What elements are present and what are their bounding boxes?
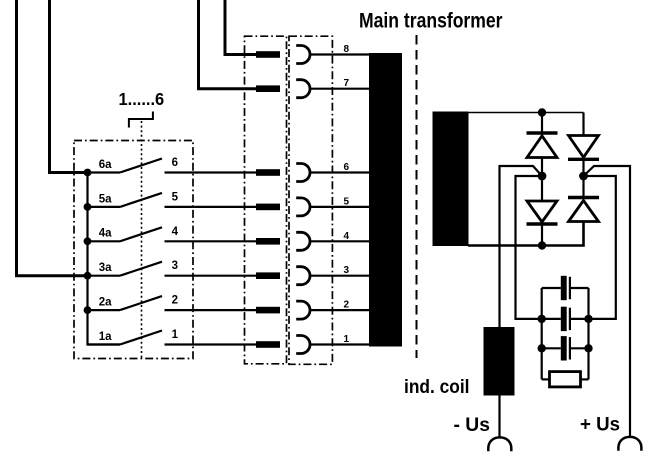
svg-text:6: 6 [343, 162, 349, 173]
svg-text:5: 5 [172, 191, 179, 203]
resistor R1 [542, 372, 589, 387]
wire right mid to + terminal [584, 166, 631, 437]
junction dot top [538, 108, 546, 116]
winding arc 7 [296, 80, 310, 98]
wire left mid to ind. coil [500, 166, 543, 327]
primary/secondary separator (dashed) [416, 35, 418, 358]
capacitor C2 [542, 307, 589, 331]
svg-text:1......6: 1......6 [119, 89, 165, 109]
wire arc 7 to core [310, 88, 370, 90]
wire contact 5 to tap [165, 206, 257, 208]
junction dot filter right [584, 315, 592, 323]
filter left rail [541, 288, 543, 379]
wire D2 to right mid dot [582, 159, 584, 176]
capacitor C1 [542, 276, 589, 300]
wire contact 1 to tap [165, 343, 257, 345]
junction dot 5a [84, 203, 92, 211]
switch S2 (2a) [88, 296, 163, 310]
junction dot bottom [538, 241, 546, 249]
terminal socket +Us [618, 437, 641, 451]
tap 5 (black) [256, 204, 280, 211]
svg-text:6: 6 [172, 157, 178, 169]
svg-text:1: 1 [172, 329, 179, 341]
diode D1 (up) [527, 133, 558, 158]
svg-text:4: 4 [343, 231, 349, 242]
wire contact 4 to tap [165, 240, 257, 242]
junction dot filter left [538, 344, 546, 352]
linkage bracket [129, 112, 153, 128]
junction dot filter left [538, 315, 546, 323]
switch bus wire [88, 173, 121, 345]
wire left mid to filter left rail [516, 176, 543, 319]
diode D3 (down) [527, 201, 558, 224]
junction dot left mid [538, 172, 547, 181]
svg-text:7: 7 [343, 78, 349, 89]
diode D2 (down) [568, 136, 599, 160]
junction dot filter right [584, 344, 592, 352]
switch S1 (1a) [88, 331, 163, 345]
svg-text:1: 1 [343, 334, 349, 345]
wire secondary top rail [468, 112, 584, 114]
svg-text:4: 4 [172, 226, 179, 238]
wire arc 4 to core [310, 240, 370, 242]
tap 2 (black) [256, 307, 280, 314]
capacitor C3 [542, 336, 589, 360]
junction dot 4a [84, 237, 92, 245]
tap 1 (black) [256, 341, 280, 348]
svg-text:4a: 4a [99, 228, 112, 240]
svg-text:Main transformer: Main transformer [359, 9, 503, 33]
winding arc 1 [296, 336, 310, 354]
svg-text:1a: 1a [99, 331, 112, 343]
switch S3 (3a) [88, 262, 163, 276]
junction dot 3a [84, 272, 92, 280]
junction dot 2a [84, 306, 92, 314]
wire coil to - terminal [498, 396, 500, 437]
wire arc 8 to core [310, 53, 370, 55]
wire arc 6 to core [310, 171, 370, 173]
winding arc 6 [296, 164, 310, 182]
svg-text:5: 5 [343, 196, 349, 207]
switch unit box (dash-dot) [74, 141, 193, 359]
wire D1 to mid dot [541, 158, 543, 177]
wire feeder 3 (to tap 7) [199, 0, 257, 89]
svg-text:8: 8 [343, 44, 349, 55]
junction dot 6a [84, 169, 92, 177]
svg-text:2: 2 [343, 300, 349, 311]
tap 7 (black) [256, 85, 280, 92]
wire arc 1 to core [310, 343, 370, 345]
switch S5 (5a) [88, 193, 163, 207]
switch S4 (4a) [88, 227, 163, 241]
wire dot to D1 [541, 113, 543, 132]
winding arc 3 [296, 267, 310, 285]
switch linkage dashed line [141, 121, 143, 358]
wire feeder 4 (to tap 8) [225, 0, 256, 55]
svg-text:5a: 5a [99, 193, 112, 205]
svg-text:2: 2 [172, 295, 178, 307]
svg-text:ind. coil: ind. coil [404, 377, 470, 398]
wire right mid to filter right rail [584, 176, 616, 319]
wire feeder 2 (left inner, to contact 6a) [50, 0, 88, 173]
winding arcs box (dash-dot) [289, 36, 332, 364]
diode D4 (up) [568, 198, 599, 222]
svg-text:3: 3 [172, 260, 178, 272]
filter right rail [587, 288, 589, 379]
wire D3 to bottom rail [541, 224, 543, 246]
svg-text:3: 3 [343, 265, 349, 276]
winding arc 8 [296, 46, 310, 64]
svg-text:2a: 2a [99, 297, 112, 309]
switch S6 (6a) [88, 159, 163, 173]
transformer core (black bar) [369, 53, 402, 347]
svg-text:6a: 6a [99, 159, 112, 171]
tap 6 (black) [256, 169, 280, 176]
wire secondary bottom rail [468, 222, 584, 246]
secondary winding bar (black) [433, 112, 469, 247]
terminal socket -Us [488, 437, 511, 451]
inductor (ind. coil, black) [484, 327, 515, 396]
junction dot right mid [579, 172, 588, 181]
svg-text:3a: 3a [99, 262, 112, 274]
wire arc 5 to core [310, 206, 370, 208]
svg-text:- Us: - Us [454, 415, 491, 436]
wire arc 3 to core [310, 275, 370, 277]
winding arc 5 [296, 198, 310, 216]
wire right mid dot to D4 [582, 176, 584, 198]
wire mid dot to D3 [541, 176, 543, 201]
wire feeder 1 (left outer, to contact 3a) [17, 0, 88, 276]
wire top rail corner down to D2 [582, 113, 584, 136]
tap 3 (black) [256, 272, 280, 279]
svg-text:+ Us: + Us [580, 415, 620, 436]
winding arc 4 [296, 232, 310, 250]
primary taps box (dash-dot) [245, 36, 287, 364]
wire contact 6 to tap [165, 171, 257, 173]
wire contact 3 to tap [165, 275, 257, 277]
winding arc 2 [296, 301, 310, 319]
wire arc 2 to core [310, 309, 370, 311]
tap 4 (black) [256, 238, 280, 245]
wire contact 2 to tap [165, 309, 257, 311]
tap 8 (black) [256, 51, 280, 58]
